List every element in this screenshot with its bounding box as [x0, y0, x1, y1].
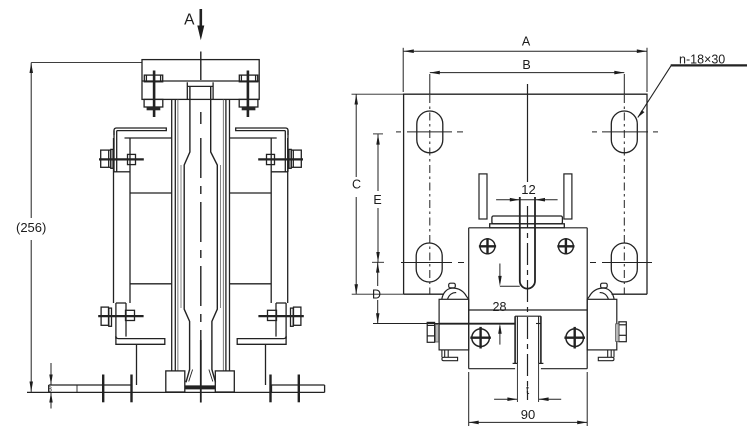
shoe block [469, 228, 588, 369]
section arrow A [184, 9, 204, 40]
svg-text:A: A [522, 35, 531, 49]
svg-text:E: E [373, 193, 381, 207]
dim D [372, 262, 384, 323]
upper right bracket [236, 128, 288, 172]
pad strips [490, 216, 565, 228]
top bolt left [144, 71, 163, 118]
stem tube [181, 82, 220, 382]
left side plate [114, 138, 173, 303]
slot bottom-right [590, 243, 652, 282]
svg-text:n-18×30: n-18×30 [679, 53, 725, 67]
dim t [494, 383, 561, 401]
screw top-right [557, 238, 574, 254]
screw top-left [479, 238, 496, 254]
upper slot with U bottom [520, 197, 535, 289]
dim 90 [469, 372, 588, 426]
lower left bracket [116, 303, 165, 344]
slot top-right [592, 74, 658, 294]
svg-text:12: 12 [521, 182, 535, 197]
dim C [352, 94, 405, 294]
upper right bracket bolt [258, 149, 303, 168]
svg-text:(256): (256) [16, 220, 46, 235]
base thickness dim [48, 363, 53, 409]
screw bottom-left [470, 327, 491, 349]
dim E [373, 134, 383, 262]
stem housing [172, 99, 230, 371]
upper left bracket bolt [99, 149, 144, 168]
centerline left view [200, 52, 202, 81]
slot bottom-left [401, 243, 464, 282]
svg-text:90: 90 [521, 407, 535, 422]
base bolt ticks [103, 375, 299, 403]
upper left bracket [114, 128, 166, 172]
svg-text:A: A [184, 11, 195, 28]
dim A [403, 35, 647, 92]
screw bottom-right [564, 327, 585, 349]
right side plate [230, 138, 288, 303]
label n-18x30 [638, 53, 747, 118]
svg-text:C: C [352, 178, 361, 192]
mounting plate [404, 94, 647, 294]
left clamp bolt [427, 322, 438, 342]
top plate [142, 60, 259, 100]
right clamp [587, 283, 617, 350]
left clamp [439, 283, 469, 350]
slot top-left [396, 74, 463, 294]
support legs [137, 344, 266, 385]
dim 256 [16, 63, 142, 392]
dim 28 [493, 264, 520, 345]
tongue [513, 316, 544, 402]
dim 12 [496, 182, 557, 201]
clamp split extension line [373, 323, 541, 325]
right clamp foot [598, 350, 614, 361]
lower left bracket bolt [98, 307, 143, 326]
lower right bracket [237, 303, 286, 344]
right clamp bolt [616, 322, 627, 342]
svg-text:8: 8 [48, 386, 52, 393]
svg-text:D: D [372, 287, 381, 301]
svg-text:28: 28 [493, 300, 507, 314]
dim B [430, 58, 625, 75]
centerline right view [527, 84, 529, 400]
top bolt right [239, 71, 258, 118]
base plate [27, 371, 325, 393]
prong right [564, 174, 572, 219]
prong left [479, 174, 487, 219]
svg-text:B: B [522, 58, 530, 72]
lower right bracket bolt [258, 307, 303, 326]
left clamp foot [442, 350, 458, 361]
